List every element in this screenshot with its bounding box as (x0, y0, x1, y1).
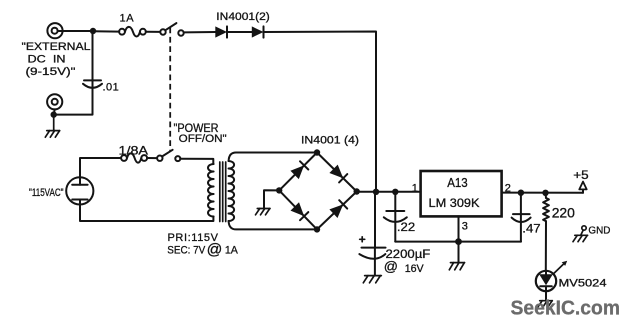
wire F2 to switch S1b (147, 157, 157, 159)
svg-text:DC IN: DC IN (28, 53, 66, 65)
fuse F2 1/8A (121, 153, 147, 162)
node bridge top dot (314, 149, 320, 155)
node bridge right dot (354, 188, 360, 194)
GND terminal circle (582, 226, 586, 230)
wire S1b to transformer primary (180, 159, 213, 164)
node bridge left dot (276, 187, 282, 193)
svg-text:1A: 1A (225, 245, 239, 257)
transformer T1 secondary winding (229, 161, 235, 221)
svg-text:@: @ (207, 242, 223, 259)
node F junction dot (542, 190, 548, 196)
svg-text:16V: 16V (405, 263, 425, 275)
diode D6 bridge bottom-right (329, 200, 347, 218)
dashed gang line switch (169, 28, 171, 152)
svg-text:MV5024: MV5024 (559, 278, 607, 290)
plus sign C3 (360, 237, 365, 242)
wire C1 to node C (54, 81, 93, 115)
switch S1a (160, 23, 183, 36)
connector J2 external DC in (-) (47, 94, 62, 114)
node E junction dot (518, 190, 524, 196)
label 2200uF (384, 247, 431, 275)
node B junction dot (373, 189, 379, 195)
bridge wire L-T (279, 153, 317, 191)
capacitor C3 2200uF lead (374, 192, 376, 248)
wire pin3 down (458, 216, 460, 241)
svg-text:1: 1 (412, 182, 418, 194)
wire J1 to node A (58, 30, 93, 32)
capacitor C1 .01 (83, 80, 102, 87)
svg-text:"EXTERNAL: "EXTERNAL (22, 41, 91, 53)
diode D5 bridge bottom-left (291, 202, 309, 220)
fuse F1 1A (119, 27, 146, 37)
AC source V1 115VAC (66, 172, 93, 210)
bridge wire T-R (317, 153, 357, 192)
svg-text:+5: +5 (573, 170, 588, 182)
svg-text:OFF/ON": OFF/ON" (179, 133, 227, 145)
svg-text:A13: A13 (447, 176, 468, 190)
svg-text:IN4001(2): IN4001(2) (216, 11, 270, 23)
diode D2 1N4001 (252, 26, 264, 37)
svg-text:IN4001 (4): IN4001 (4) (301, 134, 359, 146)
diode D1 1N4001 (215, 26, 227, 37)
transformer T1 core (220, 162, 226, 222)
LED arrow (554, 261, 567, 273)
wire S1a to diode D1 (184, 31, 216, 33)
wire F1 to switch S1a (146, 31, 160, 33)
capacitor C1 .01 lead (92, 31, 94, 80)
bottom rail wire (395, 241, 521, 243)
label PRI SEC (167, 232, 238, 259)
+5 output arrow (579, 182, 586, 193)
ground G6 below LED (538, 301, 552, 307)
connector J1 external DC in (+) (47, 23, 62, 38)
wire D1 to D2 (227, 31, 252, 33)
diode D4 bridge top-right (329, 165, 347, 183)
capacitor C2 .22 (384, 192, 407, 242)
diode D3 bridge top-left (290, 161, 308, 179)
svg-text:.22: .22 (397, 220, 416, 234)
ground G5 at GND (573, 230, 588, 242)
svg-text:.01: .01 (103, 82, 120, 94)
transformer T1 primary winding (208, 164, 214, 217)
wire pin2 to +5 (502, 192, 584, 194)
svg-text:.47: .47 (522, 222, 541, 236)
svg-text:LM 309K: LM 309K (429, 196, 480, 210)
svg-text:GND: GND (588, 224, 610, 236)
wire secondary bottom to bridge bottom (229, 221, 317, 229)
ground G2 at bridge left (256, 190, 280, 215)
svg-text:@: @ (384, 258, 398, 274)
svg-text:220: 220 (552, 204, 575, 220)
svg-text:1A: 1A (120, 13, 135, 25)
svg-text:1/8A: 1/8A (119, 144, 149, 158)
bridge wire L-B (279, 190, 317, 229)
svg-text:SeekIC.com: SeekIC.com (511, 298, 621, 320)
label external DC in (22, 41, 91, 78)
svg-text:SEC: 7V: SEC: 7V (167, 245, 206, 257)
wire node A to fuse F1 (93, 30, 119, 32)
ground G3 below C3 (363, 276, 381, 283)
label power off/on (174, 123, 227, 145)
bridge wire B-R (317, 192, 357, 230)
resistor R1 220 (543, 193, 549, 271)
svg-text:3: 3 (462, 221, 468, 233)
wire primary bottom return to V1 (80, 210, 213, 222)
ground G1 (45, 115, 59, 138)
node bridge bottom dot (314, 226, 320, 232)
ground G4 below pin3 (449, 242, 464, 270)
node C junction dot (51, 111, 57, 117)
capacitor C4 .47 (512, 193, 531, 242)
capacitor C3 2200uF (359, 248, 385, 276)
wire bridge right to regulator pin1 (357, 191, 421, 193)
LED D7 MV5024 (536, 271, 556, 301)
op-amp U1 regulator A13 LM309K box (421, 171, 502, 216)
wire secondary top to bridge top (229, 153, 317, 162)
svg-text:(9-15V)": (9-15V)" (26, 66, 76, 78)
svg-text:"115VAC": "115VAC" (29, 187, 64, 199)
wire D2 to corner and down to node B (264, 32, 377, 192)
node D junction dot (392, 189, 398, 195)
switch S1b (157, 150, 180, 161)
wire V1 top to fuse F2 (80, 158, 121, 172)
node A junction dot (90, 28, 96, 34)
node pin3 junction dot (455, 238, 462, 245)
